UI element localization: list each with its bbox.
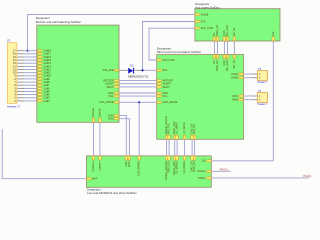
wire header P1 pin 10 to Cell entry [24, 72, 37, 74]
svg-text:Cell2: Cell2 [44, 99, 50, 103]
sheet entry Cell7 [37, 84, 43, 86]
wire Current+ [93, 122, 95, 156]
sheet entry CHG_EN MCU bottom [191, 135, 194, 139]
wire CHG [119, 116, 126, 156]
wire header P1 pin 9 to Cell entry [24, 75, 37, 77]
sheet entry Cell16 [37, 56, 43, 58]
sheet entry BAT- driver left [87, 178, 93, 180]
pin stub P1 pin 1 [17, 100, 24, 102]
svg-text:MBR0520LT1G: MBR0520LT1G [128, 74, 149, 78]
wire CANH pin stub [252, 77, 258, 79]
pin stub P1 pin 12 [17, 65, 24, 67]
svg-text:MC_5V: MC_5V [233, 27, 236, 36]
sheet entry 3V3_COM MCU left [157, 59, 163, 61]
wire WKA pin stub [252, 95, 258, 97]
connector P4 body [258, 93, 268, 103]
wire 12V from Aux down to driver sheet [211, 41, 273, 161]
pin stub P1 pin 14 [17, 59, 24, 61]
sheet entry LD_WAKE driver top [183, 156, 186, 160]
sheet entry Current- driver top [99, 156, 102, 160]
node junction CHG_WAKE [138, 101, 140, 103]
wire SHUT [119, 86, 157, 88]
sheet entry Cell18 [37, 50, 43, 52]
sheet entry CHG_WAKE driver top [138, 156, 141, 160]
wire Charge_Restore MCU to driver [166, 139, 168, 156]
svg-text:MC_GND: MC_GND [225, 60, 229, 71]
sheet entry PWR_EN MCU top [216, 55, 219, 59]
pin stub P1 pin 5 [17, 87, 24, 89]
wire CHG_WAKE drop to driver sheet [138, 102, 140, 156]
svg-text:MC_5V: MC_5V [232, 60, 236, 69]
svg-text:LD_WAKE: LD_WAKE [183, 122, 186, 134]
svg-text:Header 2: Header 2 [258, 103, 268, 106]
wire header P1 pin 15 to Cell entry [24, 56, 37, 58]
svg-text:Header 2: Header 2 [258, 81, 268, 84]
svg-text:WKA: WKA [232, 94, 238, 98]
svg-text:Low side MOSFETs and driver.Sc: Low side MOSFETs and driver.SchDoc [87, 191, 137, 195]
svg-text:BAT-: BAT- [92, 177, 98, 181]
sheet entry SDA right edge [114, 92, 120, 94]
sheet entry Cell9 [37, 78, 43, 80]
wire header P1 pin 7 to Cell entry [24, 81, 37, 83]
sheet entry DSG_EN MCU bottom [193, 135, 196, 139]
sheet entry CHG_WAKE right edge [114, 101, 120, 103]
svg-text:DSG_EN: DSG_EN [193, 124, 196, 134]
sheet entry PRE_DIS driver top [168, 156, 171, 160]
svg-text:DSG: DSG [108, 117, 114, 121]
sheet entry MC_GND Aux bottom [226, 37, 229, 41]
wire header P1 pin 17 to Cell entry [24, 50, 37, 52]
wire CANL [244, 73, 253, 75]
svg-text:P1: P1 [7, 40, 11, 43]
sheet entry Charge_Restore driver top [165, 156, 168, 160]
sheet entry SCL MCU left [157, 95, 163, 97]
svg-text:LD_WAKE: LD_WAKE [182, 161, 186, 174]
wire PC Aux to MCU [213, 41, 215, 55]
sheet entry WKA MCU right [238, 95, 244, 97]
svg-text:PRE_DIS: PRE_DIS [168, 123, 171, 134]
pin stub P1 pin 2 [17, 97, 24, 99]
sheet symbol U_MCU and Communication [157, 55, 244, 140]
svg-text:Current-: Current- [97, 161, 101, 171]
svg-text:CHG_WAKE: CHG_WAKE [137, 161, 141, 176]
sheet symbol U_Low side MOSFETs and driver [87, 156, 212, 187]
node junction on pin17 wire [26, 50, 28, 52]
wire header P1 pin 5 to Cell entry [24, 87, 37, 89]
svg-text:SCL: SCL [163, 94, 169, 98]
wire BAT+ branch from header pin 17 up and over to Aux power Cell18 entry [27, 15, 195, 51]
sheet entry Cell3 [37, 97, 43, 99]
connector P3 body [258, 71, 268, 81]
wire UC_WAKE MCU to driver [176, 139, 178, 156]
sheet entry CANL MCU right [238, 73, 244, 75]
svg-text:UC_WAKE: UC_WAKE [176, 122, 179, 135]
wire PWR_EN Aux to MCU [217, 41, 219, 55]
sheet entry Cell14 [37, 62, 43, 64]
wire SD Aux to MCU [223, 41, 225, 55]
wire WKB [244, 99, 253, 101]
sheet entry Cell5 [37, 90, 43, 92]
wire header P1 pin 6 to Cell entry [24, 84, 37, 86]
sheet entry Cell17 [37, 53, 43, 55]
pin stub P1 pin 16 [17, 53, 24, 55]
sheet entry Current+ bottom edge [92, 118, 95, 122]
svg-text:Header 17: Header 17 [7, 105, 21, 109]
wire CANH [244, 77, 253, 79]
wire header P1 pin 2 to Cell entry [24, 97, 37, 99]
wire header P1 pin 8 to Cell entry [24, 78, 37, 80]
wire CHG_WAKE [119, 101, 157, 103]
pin stub P1 pin 9 [17, 75, 24, 77]
sheet entry CANH MCU right [238, 77, 244, 79]
sheet symbol U_Aux power [195, 9, 280, 41]
svg-text:PRE_DIS: PRE_DIS [167, 161, 171, 172]
wire PRE_DIS MCU to driver [168, 139, 170, 156]
svg-text:CANH: CANH [231, 76, 238, 80]
wire 3V3_EN Aux to MCU [233, 41, 235, 55]
wire DSG_EN MCU to driver [194, 139, 196, 156]
svg-text:3V3_COM: 3V3_COM [163, 58, 175, 62]
wire Aux 3V3_COM entry down to MCU 3V3_COM entry [149, 28, 195, 60]
sheet entry Cell4 [37, 94, 43, 96]
sheet entry UC_WAKE MCU bottom [176, 135, 179, 139]
wire CHG_EN MCU to driver [191, 139, 193, 156]
wire CANL pin stub [252, 73, 258, 75]
wire WKA [244, 95, 253, 97]
pin stub diode cathode [134, 69, 141, 71]
svg-text:WKB: WKB [232, 98, 238, 102]
svg-text:SHUT: SHUT [107, 85, 114, 89]
sheet entry WKB MCU right [238, 99, 244, 101]
sheet entry DSG_EN driver top [193, 156, 196, 160]
wire SDA [119, 92, 157, 94]
wire Aux 3V3 entry down to 3V3 net [143, 22, 195, 71]
sheet entry Cell2 [37, 100, 43, 102]
svg-text:12V: 12V [272, 31, 275, 36]
sheet entry DSG right edge [114, 118, 120, 120]
sheet entry 3V3_AFE right edge [114, 69, 120, 71]
svg-text:CHG_WAKE: CHG_WAKE [99, 100, 114, 104]
wire WKB pin stub [252, 99, 258, 101]
sheet entry DSG driver top [128, 156, 131, 160]
svg-text:PACK+: PACK+ [198, 169, 207, 173]
wire header P1 pin 4 to Cell entry [24, 91, 37, 93]
svg-text:PWR_EN: PWR_EN [216, 25, 219, 36]
svg-text:DSG: DSG [127, 161, 131, 167]
sheet symbol U_Monitor and Cell balancing [37, 25, 119, 122]
sheet entry Cell15 [37, 59, 43, 61]
sheet entry UC_WAKE driver top [176, 156, 179, 160]
pin stub P1 pin 15 [17, 56, 24, 58]
svg-text:Cell18: Cell18 [201, 13, 209, 17]
sheet entry PACK_ADC MCU bottom [173, 135, 176, 139]
sheet entry GND MCU top [223, 55, 226, 59]
sheet entry Cell8 [37, 81, 43, 83]
sheet entry CHG_EN driver top [191, 156, 194, 160]
svg-text:Current+: Current+ [92, 107, 95, 117]
svg-text:PWR_EN: PWR_EN [215, 60, 219, 71]
sheet entry RETOFF MCU left [157, 80, 163, 82]
sheet entry Cell18 Aux left [195, 14, 201, 16]
svg-text:PACK-: PACK- [303, 174, 312, 178]
wire header P1 pin 14 to Cell entry [24, 59, 37, 61]
sheet entry LD_WAKE MCU bottom [183, 135, 186, 139]
pin stub P1 pin 13 [17, 62, 24, 64]
sheet entry MC_5V Aux bottom [233, 37, 236, 41]
sheet entry PACK+ driver right [206, 170, 212, 172]
node junction 3V3 net [141, 69, 143, 71]
wire header P1 pin 13 to Cell entry [24, 62, 37, 64]
sheet entry Current+ driver top [92, 156, 95, 160]
svg-text:Aux power.SchDoc: Aux power.SchDoc [195, 5, 220, 9]
wire LD_WAKE MCU to driver [184, 139, 186, 156]
sheet entry CHG_WAKE MCU left [157, 101, 163, 103]
svg-text:CHG_WAKE: CHG_WAKE [163, 100, 178, 104]
wire ALERT [119, 83, 157, 85]
svg-text:3V3: 3V3 [163, 68, 168, 72]
svg-text:3V3: 3V3 [201, 19, 206, 23]
svg-text:12V: 12V [201, 159, 206, 163]
wire header P1 pin 16 to Cell entry [24, 53, 37, 55]
sheet entry PC Aux bottom [213, 37, 216, 41]
sheet entry CHG right edge [114, 115, 120, 117]
svg-text:3V3_COM: 3V3_COM [201, 26, 213, 30]
wire PACK+ net [211, 170, 231, 172]
sheet entry Charge_Restore MCU bottom [165, 135, 168, 139]
svg-text:CANL: CANL [231, 72, 238, 76]
sheet entry 12V Aux bottom [272, 37, 275, 41]
sheet entry RETOFF right edge [114, 80, 120, 82]
wire 3V3_AFE to diode anode [119, 69, 128, 71]
sheet entry Cell11 [37, 72, 43, 74]
svg-text:Current+: Current+ [91, 161, 95, 172]
sheet entry ALERT right edge [114, 83, 120, 85]
wire BAT- net [2, 129, 86, 178]
wire header P1 pin 11 to Cell entry [24, 69, 37, 71]
sheet entry ALERT MCU left [157, 83, 163, 85]
sheet entry PACK- driver right [206, 177, 212, 179]
wire diode cathode to MCU 3V3 entry [141, 69, 157, 71]
pin stub P1 pin 17 [17, 50, 24, 52]
sheet entry Cell6 [37, 87, 43, 89]
sheet entry PRE_DIS MCU bottom [168, 135, 171, 139]
wire SCL [119, 95, 157, 97]
wire Current- [99, 122, 101, 156]
svg-text:3V3_AFE: 3V3_AFE [102, 68, 113, 72]
wire DSG [119, 119, 129, 156]
svg-text:Monitor and Cell balancing.Sch: Monitor and Cell balancing.SchDoc [36, 20, 82, 24]
sheet entry CHG driver top [125, 156, 128, 160]
sheet entry MC_5V MCU top [233, 55, 236, 59]
wire header P1 pin 1 to Cell entry [24, 100, 37, 102]
svg-text:SCL: SCL [109, 94, 115, 98]
svg-text:SHUT: SHUT [163, 85, 170, 89]
sheet entry PWR_EN Aux bottom [216, 37, 219, 41]
pin stub P1 pin 4 [17, 91, 24, 93]
sheet entry 3V3 MCU left [157, 69, 163, 71]
svg-text:DSG_EN: DSG_EN [192, 161, 196, 172]
sheet entry 12V driver right [206, 160, 212, 162]
sheet entry Cell10 [37, 75, 43, 77]
sheet entry PC MCU top [213, 55, 216, 59]
diode D2 symbol [128, 68, 133, 74]
sheet entry 3V3_COM Aux left [195, 27, 201, 29]
wire RETOFF [119, 80, 157, 82]
pin stub P1 pin 11 [17, 69, 24, 71]
sheet entry SHUT MCU left [157, 86, 163, 88]
svg-text:PACK-: PACK- [198, 176, 206, 180]
pin stub P1 pin 3 [17, 94, 24, 96]
sheet entry SDA MCU left [157, 92, 163, 94]
pin stub P1 pin 8 [17, 78, 24, 80]
svg-text:PACK+: PACK+ [220, 168, 230, 172]
sheet entry Current- bottom edge [99, 118, 102, 122]
svg-text:MCU and Communication.SchDoc: MCU and Communication.SchDoc [157, 50, 202, 54]
pin stub P1 pin 10 [17, 72, 24, 74]
wire header P1 pin 3 to Cell entry [24, 94, 37, 96]
wire PACK_ADC MCU to driver [174, 139, 176, 156]
svg-text:Current-: Current- [98, 108, 101, 117]
pin stub P1 pin 6 [17, 84, 24, 86]
pin stub P1 pin 7 [17, 81, 24, 83]
sheet entry GND Aux bottom [223, 37, 226, 41]
sheet entry SHUT right edge [114, 86, 120, 88]
sheet entry Cell12 [37, 68, 43, 70]
connector P1 body [7, 43, 17, 104]
sheet entry MC_GND MCU top [226, 55, 229, 59]
sheet entry Cell13 [37, 65, 43, 67]
svg-text:UC_WAKE: UC_WAKE [175, 161, 179, 174]
wire PACK- net [211, 177, 309, 179]
wire MC_5V Aux to MCU [227, 41, 229, 55]
svg-text:MC_GND: MC_GND [226, 25, 229, 36]
sheet entry SCL right edge [114, 95, 120, 97]
svg-text:D2: D2 [130, 64, 134, 68]
wire header P1 pin 12 to Cell entry [24, 65, 37, 67]
sheet entry PACK_ADC driver top [173, 156, 176, 160]
sheet entry 3V3 Aux left [195, 20, 201, 22]
